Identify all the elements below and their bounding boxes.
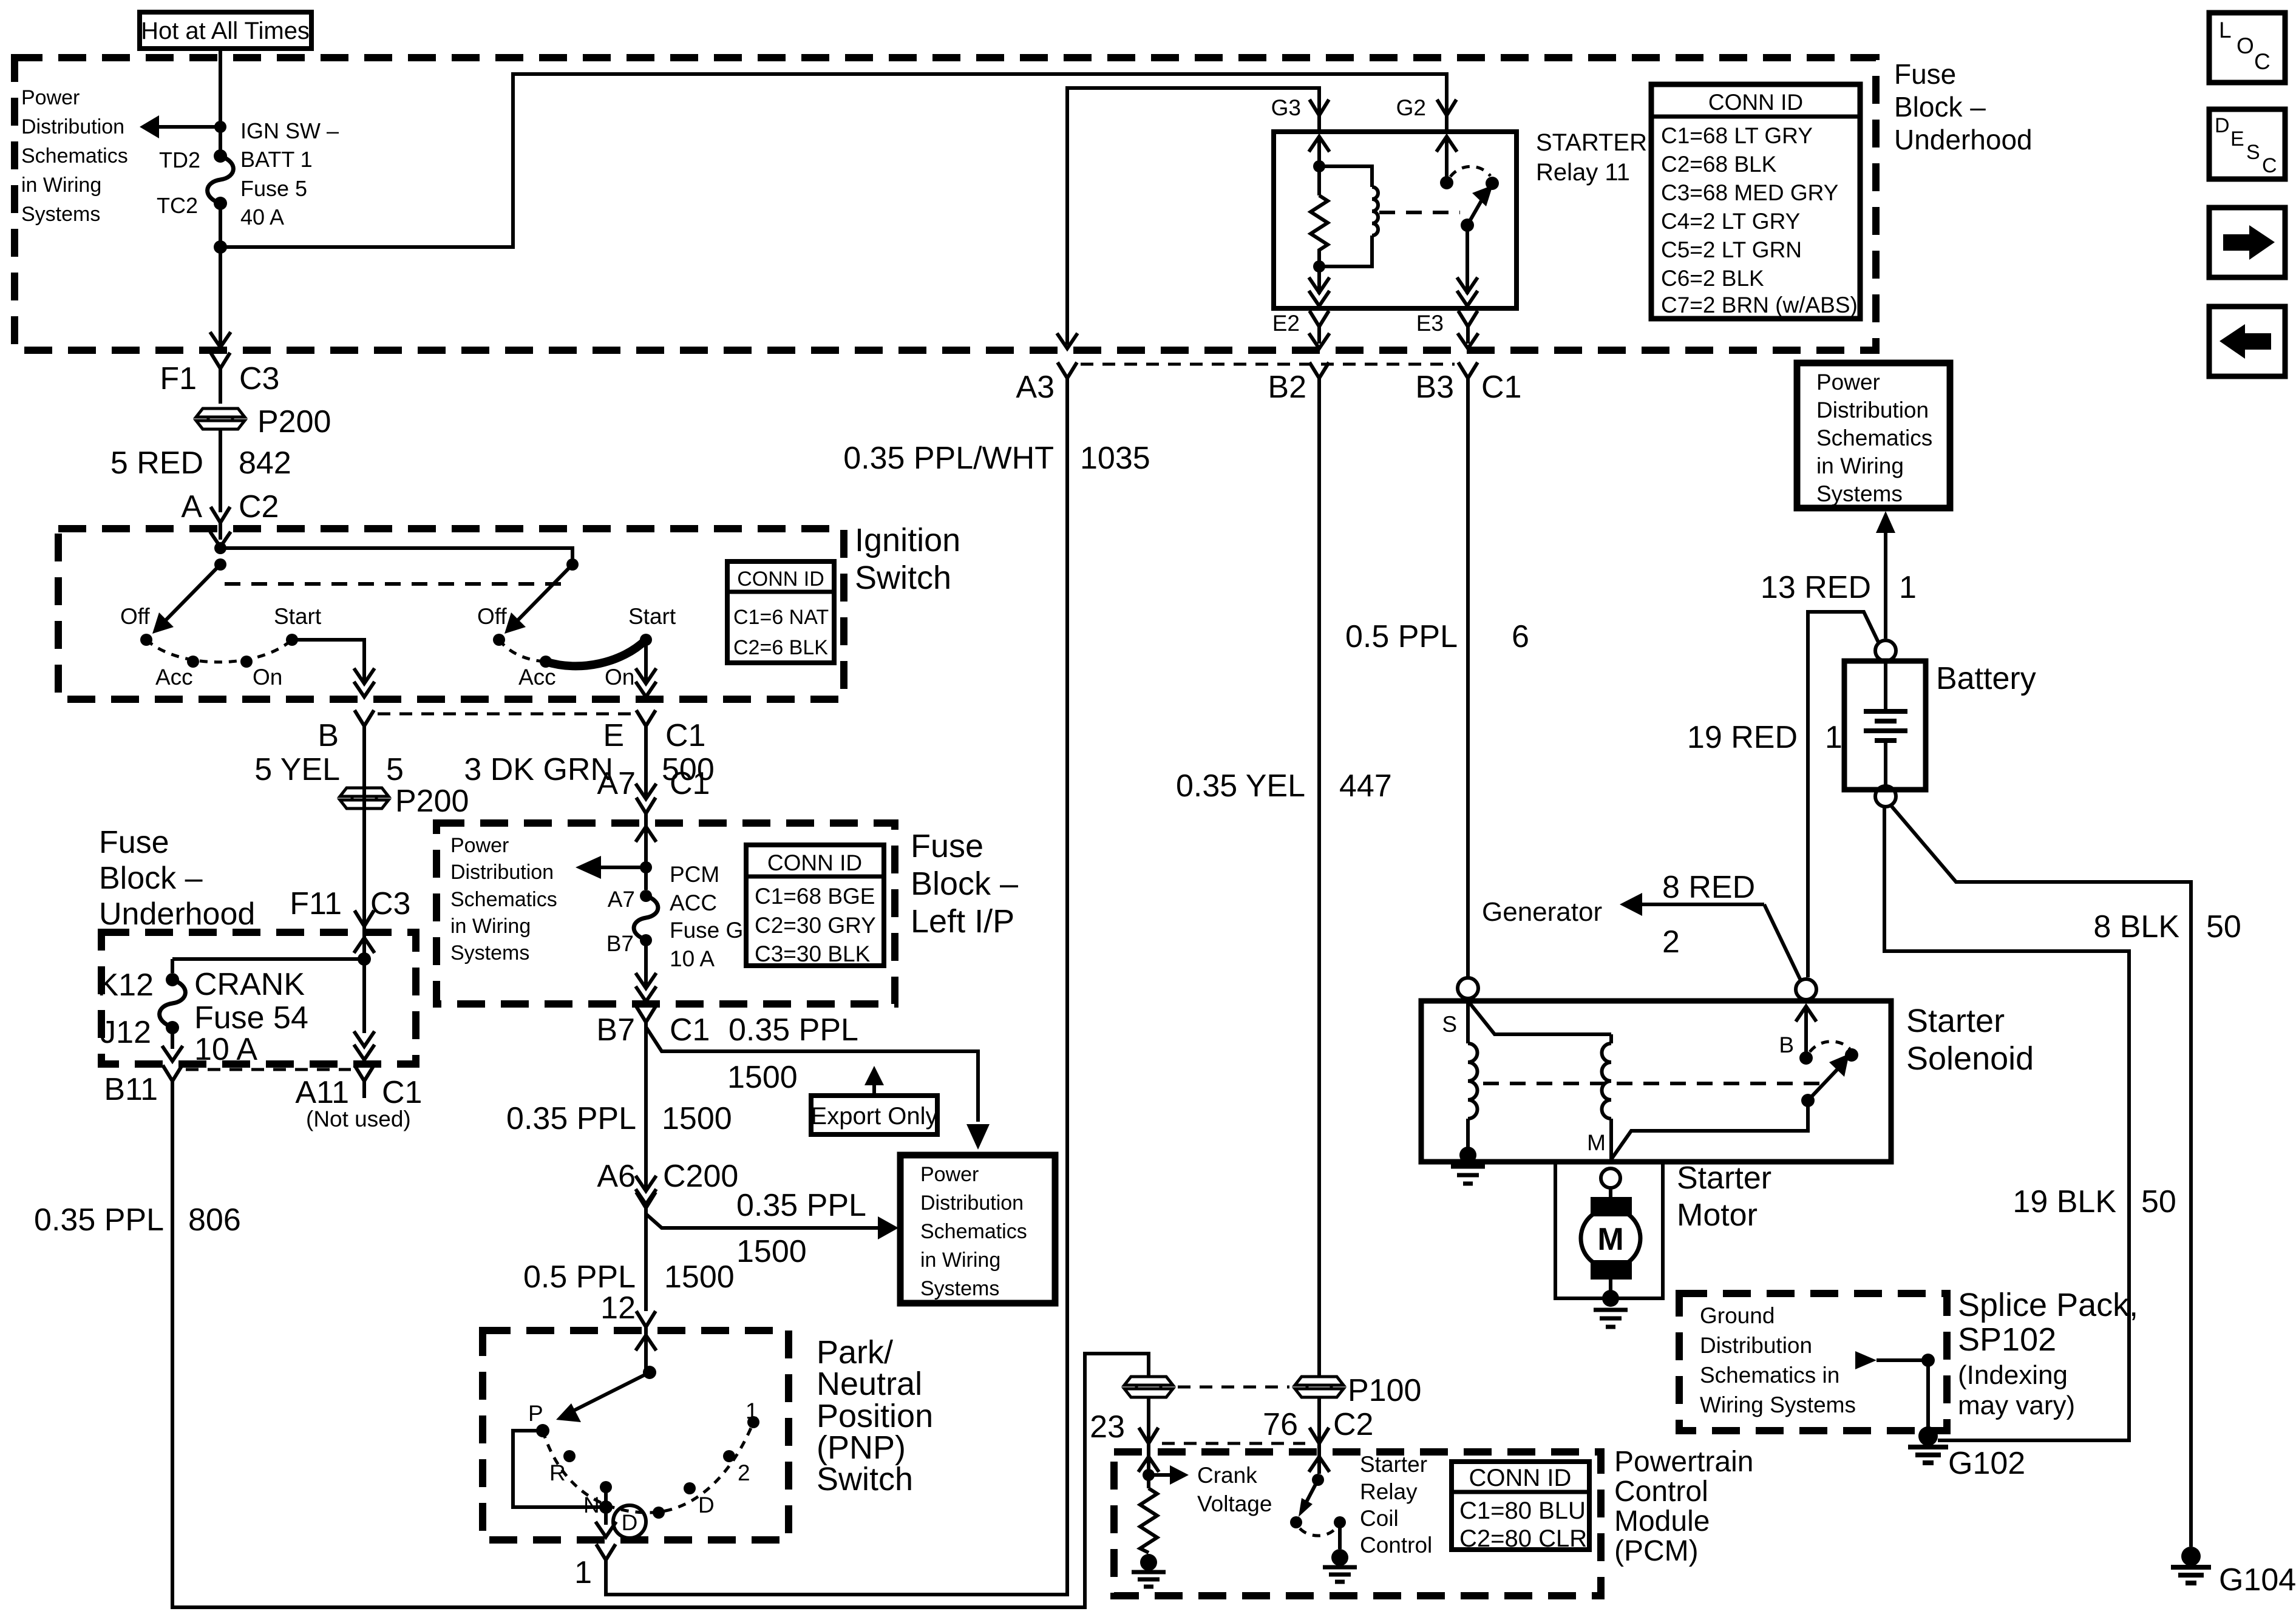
CONN ID table (fuse block underhood) [1651, 84, 1860, 319]
svg-text:D: D [698, 1493, 715, 1517]
svg-text:O: O [2237, 33, 2254, 58]
svg-text:19 RED: 19 RED [1687, 720, 1798, 755]
relay switch movable arm [1461, 185, 1493, 232]
svg-text:C1=68 LT GRY: C1=68 LT GRY [1661, 123, 1813, 148]
svg-text:1500: 1500 [662, 1101, 732, 1136]
svg-text:Solenoid: Solenoid [1906, 1040, 2034, 1077]
Export Only reference box [811, 1066, 938, 1134]
svg-text:C2: C2 [1333, 1407, 1373, 1442]
relay switch pole to E3 [1457, 225, 1478, 306]
svg-text:50: 50 [2206, 909, 2241, 944]
svg-text:E3: E3 [1416, 311, 1444, 336]
svg-text:(PNP): (PNP) [817, 1429, 906, 1466]
branch wire to starter relay G2 [220, 74, 1447, 247]
svg-text:Coil: Coil [1360, 1506, 1399, 1531]
svg-text:A6: A6 [597, 1159, 636, 1194]
svg-text:A7: A7 [608, 887, 635, 912]
PCM crank voltage ground [1132, 1554, 1166, 1587]
svg-text:1500: 1500 [727, 1060, 798, 1095]
solenoid S terminal [1442, 978, 1478, 1037]
STARTER Relay 11 box [1274, 132, 1517, 308]
svg-text:Motor: Motor [1677, 1198, 1758, 1233]
wire 0.35 PPL/WHT 1035 PNP to fuse block A3 [606, 392, 1150, 1595]
wire below fuse 5 [210, 203, 231, 347]
svg-text:P200: P200 [395, 784, 469, 819]
svg-text:5 YEL: 5 YEL [254, 752, 340, 787]
svg-text:SP102: SP102 [1958, 1321, 2056, 1358]
svg-text:Generator: Generator [1482, 897, 1602, 927]
svg-text:R: R [549, 1460, 566, 1485]
svg-text:Park/: Park/ [817, 1334, 893, 1371]
svg-text:Fuse: Fuse [99, 825, 169, 860]
starter relay G3 terminal [1271, 95, 1329, 132]
solenoid pull-in coil feed [1468, 998, 1611, 1034]
svg-text:B: B [1779, 1032, 1794, 1057]
crank fuse connector face dashed [186, 1068, 351, 1071]
wire 3 DK GRN 500 [464, 743, 714, 798]
svg-text:CONN ID: CONN ID [1708, 90, 1803, 115]
terminal F11 / C3 [290, 886, 410, 943]
svg-text:2: 2 [738, 1460, 750, 1485]
svg-text:G102: G102 [1948, 1446, 2025, 1481]
svg-text:Underhood: Underhood [1894, 124, 2033, 155]
relay coil bottom node to E2 [1309, 260, 1330, 306]
wire from Hot at All Times down [219, 49, 222, 153]
svg-text:Off: Off [477, 604, 507, 629]
svg-text:Voltage: Voltage [1197, 1491, 1272, 1516]
svg-text:Hot at All Times: Hot at All Times [141, 18, 310, 44]
svg-text:P: P [528, 1401, 543, 1426]
connector face dashed below fuse block [1081, 363, 1455, 366]
fuse 5 terminal labels TD2 TC2 [157, 147, 200, 218]
svg-text:A7: A7 [597, 766, 636, 801]
Battery [1844, 661, 2036, 790]
svg-text:CRANK: CRANK [194, 967, 305, 1002]
solenoid coil ground [1451, 1147, 1485, 1184]
svg-text:Ground: Ground [1700, 1303, 1775, 1328]
svg-text:C6=2 BLK: C6=2 BLK [1661, 266, 1764, 291]
Power Distribution Schematics reference (left I/P) [450, 834, 557, 964]
svg-text:C3=30 BLK: C3=30 BLK [755, 941, 871, 966]
Powertrain Control Module (PCM) dashed box [1114, 1452, 1601, 1596]
svg-text:B3: B3 [1415, 370, 1454, 405]
svg-text:C1=68 BGE: C1=68 BGE [755, 884, 875, 909]
Fuse Block - Underhood label [1894, 58, 2033, 155]
Power Distribution Schematics box (battery feed) [1797, 363, 1950, 508]
svg-text:0.35 YEL: 0.35 YEL [1176, 768, 1305, 804]
svg-text:Module: Module [1614, 1505, 1710, 1537]
svg-text:C1: C1 [670, 766, 710, 801]
svg-text:P200: P200 [257, 404, 331, 439]
Powertrain Control Module (PCM) label [1614, 1446, 1753, 1567]
svg-text:On: On [605, 665, 634, 690]
svg-text:40 A: 40 A [240, 205, 284, 229]
svg-text:Distribution: Distribution [21, 115, 124, 138]
terminal A / C2 into ignition switch [181, 489, 279, 540]
svg-text:in Wiring: in Wiring [21, 174, 101, 197]
svg-text:Block –: Block – [911, 866, 1018, 902]
svg-text:D: D [622, 1510, 638, 1535]
svg-text:Neutral: Neutral [817, 1366, 922, 1402]
Ignition Switch label [855, 522, 960, 596]
svg-text:E: E [2230, 127, 2244, 151]
svg-text:Crank: Crank [1197, 1463, 1257, 1488]
svg-text:C2=68 BLK: C2=68 BLK [1661, 152, 1777, 177]
relay mechanical link dashed [1379, 211, 1460, 214]
svg-text:Control: Control [1360, 1533, 1432, 1558]
solenoid dashed throw arc [1810, 1042, 1850, 1052]
svg-text:S: S [2246, 141, 2260, 164]
connector P100 pin 76 C2 [1263, 1373, 1421, 1460]
svg-text:1035: 1035 [1080, 441, 1150, 476]
svg-text:K12: K12 [97, 968, 154, 1003]
CONN ID table (PCM) [1452, 1462, 1589, 1552]
DESC reference box [2209, 109, 2285, 179]
svg-text:0.35 PPL: 0.35 PPL [506, 1101, 636, 1136]
svg-text:F1: F1 [160, 361, 197, 396]
solenoid throw contact [1845, 1048, 1858, 1062]
ground G104 [2171, 1547, 2296, 1598]
svg-text:On: On [253, 665, 282, 690]
branch wire to starter relay G3 [1067, 88, 1319, 345]
svg-text:Powertrain: Powertrain [1614, 1446, 1753, 1478]
solenoid pull-in coil [1602, 1034, 1612, 1159]
svg-text:76: 76 [1263, 1407, 1298, 1442]
Starter Motor label [1677, 1161, 1771, 1233]
svg-text:A3: A3 [1016, 370, 1055, 405]
svg-text:BATT 1: BATT 1 [240, 147, 313, 172]
svg-text:in Wiring: in Wiring [1816, 453, 1904, 478]
solenoid mechanical link dashed [1483, 1082, 1821, 1085]
wire 19 BLK 50 battery to splice pack [1884, 807, 2176, 1440]
svg-text:C: C [2254, 49, 2271, 74]
splice pack SP102 node [1855, 1351, 1935, 1428]
svg-text:in Wiring: in Wiring [450, 915, 531, 938]
starter motor enclosure [1555, 1162, 1663, 1298]
svg-text:Schematics: Schematics [21, 144, 128, 168]
svg-text:Wiring Systems: Wiring Systems [1700, 1392, 1856, 1417]
svg-text:Fuse: Fuse [1894, 58, 1956, 90]
CRANK Fuse 54 10 A [160, 967, 308, 1067]
starter motor M terminal [1601, 1168, 1620, 1188]
CONN ID table (ignition switch) [727, 561, 834, 663]
solenoid B terminal circle [1796, 979, 1816, 1000]
svg-text:Fuse: Fuse [911, 828, 983, 864]
svg-text:1: 1 [1899, 570, 1917, 605]
svg-text:Underhood: Underhood [99, 897, 255, 932]
svg-text:Block –: Block – [99, 861, 203, 896]
ignition switch mechanical link dashed [225, 582, 568, 586]
svg-text:0.35 PPL: 0.35 PPL [736, 1188, 866, 1223]
svg-text:Splice Pack,: Splice Pack, [1958, 1287, 2138, 1323]
connector P200 (circuit 842) [196, 404, 331, 439]
svg-text:Start: Start [628, 604, 676, 629]
fuse 5: IGN SW - BATT 1, 40 A [208, 118, 339, 229]
svg-text:Relay: Relay [1360, 1479, 1418, 1504]
svg-text:A: A [181, 489, 202, 524]
svg-text:1500: 1500 [736, 1234, 807, 1269]
arrow to power distribution schematics (left I/P) [576, 856, 646, 879]
svg-text:Export Only: Export Only [811, 1103, 938, 1130]
svg-text:C2=80 CLR: C2=80 CLR [1459, 1525, 1587, 1552]
svg-text:E2: E2 [1272, 311, 1300, 336]
wire 0.5 PPL 1500 to PNP switch pin 12 [523, 1225, 735, 1344]
svg-text:C2: C2 [239, 489, 279, 524]
svg-text:Schematics: Schematics [920, 1220, 1027, 1243]
svg-text:CONN ID: CONN ID [737, 568, 824, 591]
svg-text:10 A: 10 A [194, 1032, 257, 1067]
Starter Solenoid label [1906, 1003, 2034, 1077]
svg-text:Left I/P: Left I/P [911, 903, 1014, 940]
svg-text:50: 50 [2141, 1184, 2176, 1219]
svg-text:N: N [583, 1493, 600, 1517]
PCM starter relay coil control driver [1290, 1452, 1432, 1558]
svg-text:TC2: TC2 [157, 193, 198, 218]
svg-text:Starter: Starter [1677, 1161, 1771, 1196]
relay switch fixed contact [1436, 137, 1457, 189]
svg-text:Switch: Switch [817, 1461, 913, 1497]
svg-text:Power: Power [21, 86, 80, 109]
svg-text:C7=2 BRN (w/ABS): C7=2 BRN (w/ABS) [1661, 293, 1858, 317]
svg-text:STARTER: STARTER [1536, 129, 1647, 156]
ignition bank2 Start wire to E [636, 640, 656, 697]
svg-text:1: 1 [574, 1555, 592, 1590]
svg-text:(Not used): (Not used) [306, 1107, 411, 1131]
ground G102 [1908, 1426, 2025, 1481]
terminal B2 [1268, 362, 1329, 405]
svg-text:C1=80 BLU: C1=80 BLU [1459, 1497, 1586, 1524]
svg-text:Distribution: Distribution [1700, 1333, 1812, 1358]
svg-text:Systems: Systems [450, 941, 529, 964]
svg-text:G3: G3 [1271, 95, 1301, 120]
svg-text:C200: C200 [663, 1159, 738, 1194]
svg-text:Acc: Acc [155, 665, 193, 690]
svg-text:1500: 1500 [664, 1259, 735, 1295]
solenoid switch arm [1801, 1054, 1849, 1107]
battery negative terminal [1875, 786, 1896, 807]
svg-text:CONN ID: CONN ID [767, 850, 862, 875]
svg-text:Systems: Systems [21, 203, 100, 226]
svg-text:Distribution: Distribution [1816, 398, 1929, 422]
ignition wiper arrow bank 2 [504, 564, 572, 634]
svg-text:B: B [318, 718, 339, 753]
LOC reference box [2209, 13, 2285, 83]
svg-text:Position: Position [817, 1398, 933, 1434]
svg-text:Systems: Systems [920, 1277, 999, 1300]
Power Distribution Schematics reference (top left) [21, 86, 128, 226]
svg-text:IGN SW –: IGN SW – [240, 118, 339, 143]
terminal A3 [1016, 333, 1078, 405]
svg-text:Off: Off [120, 604, 150, 629]
relay switch throw contact [1486, 177, 1499, 190]
svg-text:Fuse 54: Fuse 54 [194, 1000, 308, 1036]
wire 0.35 PPL 1500 [506, 1027, 732, 1188]
svg-text:G2: G2 [1396, 95, 1426, 120]
PCM ACC fuse feed node [636, 827, 656, 890]
relay E3 terminal [1416, 311, 1478, 348]
battery positive terminal [1875, 640, 1896, 661]
terminal B11 [104, 1065, 182, 1107]
svg-text:19 BLK: 19 BLK [2012, 1184, 2116, 1219]
branch wire 0.35 PPL 1500 to power distribution [646, 1027, 990, 1150]
starter relay G2 terminal [1396, 95, 1456, 132]
svg-text:(Indexing: (Indexing [1958, 1360, 2068, 1390]
connector C1 terminal A7 [597, 766, 710, 830]
wire from crank fuse to B11 [162, 1028, 183, 1061]
svg-text:in Wiring: in Wiring [920, 1249, 1000, 1272]
svg-text:Control: Control [1614, 1476, 1708, 1508]
connector C200 terminal A6 [597, 1159, 738, 1225]
svg-text:842: 842 [239, 446, 291, 481]
svg-text:C2=30 GRY: C2=30 GRY [755, 913, 876, 938]
svg-text:C1: C1 [670, 1012, 710, 1048]
svg-text:ACC: ACC [670, 890, 717, 915]
svg-text:C: C [2262, 154, 2277, 177]
svg-text:5 RED: 5 RED [110, 446, 203, 481]
PCM connector face dashed [1162, 1442, 1305, 1445]
svg-text:Power: Power [450, 834, 509, 857]
PNP input node pin 12 [636, 1335, 656, 1379]
svg-text:(PCM): (PCM) [1614, 1535, 1699, 1567]
relay resistor [1311, 195, 1328, 266]
svg-text:L: L [2219, 18, 2232, 42]
svg-text:0.35 PPL: 0.35 PPL [729, 1012, 858, 1048]
PCM crank voltage input node [1138, 1457, 1159, 1488]
svg-text:Power: Power [920, 1163, 979, 1186]
svg-text:23: 23 [1090, 1409, 1125, 1445]
svg-text:B2: B2 [1268, 370, 1306, 405]
svg-text:PCM: PCM [670, 862, 719, 887]
svg-text:Fuse G: Fuse G [670, 918, 743, 943]
Park/Neutral Position (PNP) Switch label [817, 1334, 933, 1497]
svg-text:CONN ID: CONN ID [1469, 1465, 1572, 1491]
connector pin 23 (PCM) [1090, 1377, 1173, 1460]
next page arrow box [2209, 208, 2285, 277]
Power Distribution Schematics box (solid) [900, 1155, 1055, 1303]
svg-text:1: 1 [746, 1398, 758, 1423]
svg-text:806: 806 [188, 1202, 241, 1238]
wire 5 RED 842 [110, 429, 291, 512]
svg-text:D: D [2215, 114, 2230, 137]
svg-text:may vary): may vary) [1958, 1391, 2075, 1420]
Fuse Block - Underhood dashed box [15, 58, 1876, 350]
svg-text:Distribution: Distribution [450, 861, 554, 884]
svg-text:Distribution: Distribution [920, 1192, 1024, 1215]
PCM ACC fuse terminal labels A7 B7 [606, 887, 635, 956]
svg-text:Power: Power [1816, 370, 1880, 395]
svg-text:Block –: Block – [1894, 91, 1986, 123]
svg-text:13 RED: 13 RED [1761, 570, 1871, 605]
svg-text:M: M [1597, 1222, 1623, 1257]
svg-text:S: S [1442, 1012, 1457, 1037]
svg-text:C5=2 LT GRN: C5=2 LT GRN [1661, 237, 1802, 262]
starter motor ground [1594, 1290, 1628, 1327]
ignition bank2 contacts Off Acc Start [477, 604, 676, 690]
solenoid M node [1587, 1107, 1808, 1159]
wire 13 RED 1 battery to power distribution [1761, 511, 1917, 639]
relay coil [1319, 166, 1378, 266]
crank fuse terminal labels K12 J12 [97, 968, 154, 1050]
solenoid B contact [1779, 1006, 1816, 1065]
svg-text:12: 12 [600, 1290, 636, 1326]
svg-text:B7: B7 [596, 1012, 635, 1048]
connector P200 (circuit 5) [340, 784, 469, 819]
svg-text:C4=2 LT GRY: C4=2 LT GRY [1661, 209, 1800, 234]
PNP park loop wire [513, 1431, 613, 1514]
PCM driver ground [1323, 1549, 1357, 1582]
svg-text:2: 2 [1662, 924, 1680, 960]
previous page arrow box [2209, 307, 2285, 376]
svg-text:0.5 PPL: 0.5 PPL [1345, 619, 1458, 654]
CONN ID table (left I/P) [746, 845, 884, 966]
wire 19 RED 1 battery to solenoid B [1687, 612, 1879, 977]
svg-text:E: E [603, 718, 624, 753]
starter motor armature [1581, 1188, 1640, 1298]
PCM ACC Fuse G 10 A [634, 862, 743, 971]
terminal A11 / C1 (Not used) [295, 1065, 422, 1131]
svg-text:C3: C3 [370, 886, 410, 921]
generator tap arrow 8 RED 2 [1482, 870, 1801, 981]
svg-text:0.35 PPL: 0.35 PPL [34, 1202, 164, 1238]
relay E2 terminal [1272, 311, 1330, 348]
svg-text:A11: A11 [295, 1075, 349, 1110]
PCM crank voltage arrow [1149, 1463, 1272, 1516]
svg-text:6: 6 [1512, 619, 1529, 654]
PNP circled D indicator [613, 1505, 646, 1538]
svg-text:Acc: Acc [518, 665, 556, 690]
svg-text:0.5 PPL: 0.5 PPL [523, 1259, 636, 1295]
Park/Neutral Position (PNP) Switch dashed box [483, 1331, 789, 1540]
PNP contacts P R N D 2 1 [528, 1398, 759, 1519]
wire from feed node to A11 [354, 959, 375, 1060]
Ignition Switch dashed box [58, 529, 844, 699]
svg-text:M: M [1587, 1130, 1606, 1155]
STARTER Relay 11 label [1536, 129, 1647, 186]
PNP output wire to pin 1 [574, 1507, 616, 1590]
svg-text:C2=6 BLK: C2=6 BLK [733, 636, 828, 659]
svg-text:Schematics: Schematics [1816, 425, 1932, 450]
dashed connector link 23 to P100 [1178, 1386, 1289, 1389]
terminal B7 / C1 [596, 1006, 858, 1048]
Ground Distribution Schematics dashed box [1679, 1293, 1947, 1431]
svg-text:C3: C3 [239, 361, 279, 396]
branch wire 0.35 PPL 1500 to power distribution schematics [646, 1188, 898, 1269]
arrow to power distribution schematics [140, 115, 226, 138]
svg-text:Battery: Battery [1936, 661, 2036, 696]
svg-text:5: 5 [386, 752, 404, 787]
svg-text:447: 447 [1339, 768, 1392, 804]
svg-text:Schematics in: Schematics in [1700, 1363, 1839, 1388]
svg-text:Systems: Systems [1816, 481, 1903, 506]
relay switch dashed throw arc [1450, 166, 1490, 177]
svg-text:C1: C1 [1481, 370, 1521, 405]
svg-text:8 RED: 8 RED [1662, 870, 1755, 905]
svg-text:C1: C1 [382, 1075, 422, 1110]
svg-text:C1=6 NAT: C1=6 NAT [733, 606, 829, 629]
svg-text:Switch: Switch [855, 560, 951, 596]
crank fuse feed node [172, 938, 375, 973]
svg-text:Relay 11: Relay 11 [1536, 159, 1630, 186]
ignition connector face dashed line [378, 713, 633, 716]
svg-text:3 DK GRN: 3 DK GRN [464, 752, 613, 787]
wire 8 BLK 50 battery to G104 [1890, 804, 2241, 1547]
ignition switch input node [210, 532, 579, 571]
svg-text:0.35 PPL/WHT: 0.35 PPL/WHT [843, 441, 1054, 476]
wire 5 YEL 5 [254, 729, 404, 1012]
wire 0.5 PPL 6 to starter solenoid S [1345, 394, 1529, 978]
terminal E / C1 below ignition switch [603, 710, 705, 753]
svg-text:Starter: Starter [1360, 1452, 1427, 1477]
